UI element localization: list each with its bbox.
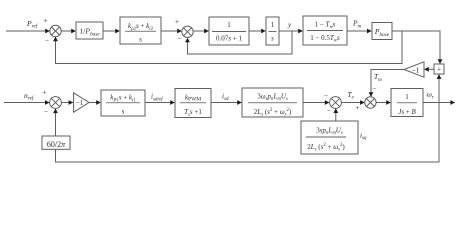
block U6 Pbase gain <box>372 23 392 40</box>
wire S3 to gain -1 lower <box>61 100 73 105</box>
block U5 washout (1-Tw s)/(1-0.5Tw s) <box>303 16 347 45</box>
svg-text:Js + B: Js + B <box>398 108 416 116</box>
wire gain -1 to S5 (torque Tm path) <box>369 70 404 97</box>
block U1 1/Pbase <box>76 22 103 39</box>
sign plus at S5 left input <box>355 103 359 112</box>
block U11 inertia 1/(Js+B) <box>391 89 423 117</box>
block U9 d-axis torque gain 3ws pn Lm Us / 2Ls(s^2+ws^2) <box>242 88 303 118</box>
summing junction S5 <box>365 97 376 108</box>
svg-text:60/2π: 60/2π <box>47 140 66 149</box>
sign minus at S3 <box>44 107 48 116</box>
sign minus at S1 <box>45 35 49 44</box>
svg-text:s: s <box>271 35 274 43</box>
wire speed feedback omega_r down-left to 60/2pi <box>56 103 440 163</box>
wire q-axis block up to S4 <box>333 108 338 121</box>
wire gain -1 to speed PI block <box>89 100 101 105</box>
block U3 measuring lag 1/(0.07s+1) <box>209 17 249 45</box>
wire node y feedback down to S2 <box>185 31 292 54</box>
wire 1/Pbase to power PI block <box>103 29 120 34</box>
wire speed PI to PWM block <box>145 100 175 105</box>
summing junction S2 <box>182 26 193 37</box>
node T_e label <box>348 90 355 101</box>
sign minus at S5 top input <box>372 84 376 93</box>
gain A1 -1 triangle (points left) <box>404 62 424 77</box>
svg-text:1: 1 <box>227 21 231 29</box>
svg-text:s: s <box>139 36 142 44</box>
node i_sdref label <box>151 93 163 103</box>
node i_sd label <box>222 91 229 102</box>
block U10 q-axis torque gain 3s pn Lm Us / 2Ls(s^2+ws^2) <box>301 121 358 154</box>
wire PWM to d-axis torque block <box>211 100 242 105</box>
sign minus at S4 bottom input <box>327 106 331 115</box>
node T_m label <box>374 72 382 83</box>
node y label <box>287 21 292 29</box>
summing junction S4 <box>330 97 342 109</box>
svg-text:+: + <box>437 65 441 74</box>
svg-text:−: − <box>372 84 376 93</box>
wire 60/2pi up to S3 <box>53 109 58 137</box>
sign minus at S4 left input <box>324 91 328 100</box>
wire S2 to lag block <box>193 29 209 34</box>
wire S4 to S5 (torque Te) <box>341 100 364 105</box>
wire n_ref input to summer S3 <box>4 100 50 105</box>
block U4 integrator 1/s <box>266 17 279 45</box>
wire washout to Pbase gain <box>347 29 372 34</box>
wire S1 to block 1/Pbase <box>61 29 76 34</box>
wire P_ref input to summer S1 <box>6 29 50 34</box>
wire omega_r up into plus box bottom <box>437 74 442 102</box>
summing box (plus) right side <box>434 64 444 74</box>
wire d-axis torque block to S4 <box>303 100 329 105</box>
node i_sq label <box>360 130 367 141</box>
summing junction S3 <box>50 97 62 109</box>
wire S5 to inertia block <box>376 100 391 105</box>
node n_ref input label <box>24 91 35 102</box>
block U12 speed conversion 60/2pi <box>42 136 70 149</box>
wire omega_r output <box>423 100 455 105</box>
svg-text:s: s <box>122 108 125 116</box>
summing junction S1 <box>50 25 61 36</box>
wire plus box to gain -1 <box>424 67 434 72</box>
node omega_r label <box>427 90 435 101</box>
svg-text:−1: −1 <box>76 99 84 107</box>
svg-text:0.07s + 1: 0.07s + 1 <box>216 35 242 43</box>
wire power feedback from Pbase output down-left-up to S1 <box>53 31 402 64</box>
gain A2 -1 triangle (points right) <box>74 93 89 112</box>
svg-text:+: + <box>175 17 179 26</box>
wire power PI to summer S2 <box>161 29 182 34</box>
block U7 speed PI controller (kP1 s + ki1)/s <box>101 90 145 116</box>
svg-text:+: + <box>355 103 359 112</box>
svg-text:1: 1 <box>271 21 275 29</box>
svg-text:−: − <box>45 35 49 44</box>
node P_ref input label <box>26 19 39 30</box>
svg-text:−: − <box>324 91 328 100</box>
svg-text:−: − <box>327 106 331 115</box>
block U8 PWM converter kPWM/(Ts s+1) <box>175 89 211 118</box>
block U2 power PI controller (kp2 s + ki2)/s <box>120 17 161 44</box>
sign plus at S1 <box>43 16 47 25</box>
svg-text:−: − <box>177 34 181 43</box>
sign plus at S3 <box>42 88 46 97</box>
wire integrator to washout block <box>279 29 303 34</box>
wire lag to integrator <box>249 29 266 34</box>
svg-text:−1: −1 <box>412 66 420 74</box>
svg-text:+: + <box>43 16 47 25</box>
svg-text:−: − <box>44 107 48 116</box>
wire Pbase output to plus box (down right corner) <box>392 31 442 64</box>
sign minus at S2 <box>177 34 181 43</box>
sign plus at S2 <box>175 17 179 26</box>
node P_m label <box>352 19 362 30</box>
svg-text:+: + <box>42 88 46 97</box>
svg-text:1: 1 <box>405 93 409 101</box>
